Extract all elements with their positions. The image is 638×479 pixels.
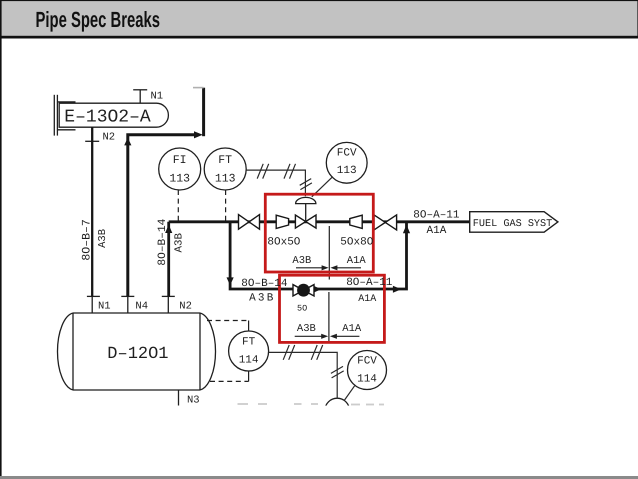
- svg-text:A1A: A1A: [427, 225, 447, 237]
- svg-text:114: 114: [357, 373, 377, 385]
- svg-text:8O–B–7: 8O–B–7: [80, 219, 93, 260]
- svg-text:D–12O1: D–12O1: [107, 345, 168, 364]
- svg-text:8O–A–11: 8O–A–11: [413, 210, 460, 222]
- svg-text:FI: FI: [173, 154, 187, 167]
- svg-text:113: 113: [215, 173, 236, 186]
- svg-text:113: 113: [169, 173, 190, 186]
- svg-text:N1: N1: [98, 301, 111, 313]
- svg-text:N3: N3: [187, 395, 200, 407]
- svg-text:FCV: FCV: [357, 356, 377, 368]
- svg-text:A3B: A3B: [97, 229, 109, 248]
- svg-text:A1A: A1A: [358, 294, 376, 305]
- svg-text:N4: N4: [135, 301, 148, 313]
- svg-text:E–13O2–A: E–13O2–A: [64, 107, 151, 127]
- svg-text:Pipe Spec Breaks: Pipe Spec Breaks: [36, 7, 161, 32]
- svg-text:8O–B–14: 8O–B–14: [157, 218, 169, 265]
- svg-text:FT: FT: [218, 154, 232, 167]
- svg-text:114: 114: [239, 355, 259, 367]
- svg-text:A3B: A3B: [297, 323, 316, 335]
- svg-text:A3B: A3B: [173, 233, 185, 253]
- svg-text:A3B: A3B: [249, 292, 275, 304]
- svg-text:113: 113: [337, 165, 357, 177]
- svg-text:A1A: A1A: [347, 255, 367, 267]
- svg-text:A1A: A1A: [342, 323, 362, 335]
- svg-text:A3B: A3B: [292, 255, 311, 267]
- svg-text:N1: N1: [151, 91, 164, 103]
- svg-text:8O–A–11: 8O–A–11: [346, 277, 393, 289]
- svg-text:N2: N2: [103, 132, 116, 144]
- svg-text:FT: FT: [242, 337, 256, 349]
- svg-text:8O–B–14: 8O–B–14: [241, 278, 288, 290]
- svg-text:FUEL GAS SYST: FUEL GAS SYST: [473, 219, 552, 230]
- svg-text:N2: N2: [179, 301, 192, 313]
- svg-text:5Ox8O: 5Ox8O: [340, 237, 373, 249]
- svg-text:5O: 5O: [297, 304, 307, 314]
- svg-text:FCV: FCV: [337, 147, 357, 159]
- svg-text:8Ox5O: 8Ox5O: [267, 237, 300, 249]
